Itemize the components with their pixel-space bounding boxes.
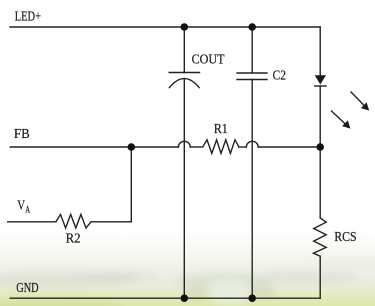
capacitor COUT curved plate bbox=[169, 79, 199, 88]
svg-text:RCS: RCS bbox=[334, 230, 356, 245]
LED D1 triangle bbox=[315, 75, 326, 84]
resistor R1 bbox=[203, 140, 239, 154]
svg-text:R2: R2 bbox=[66, 232, 81, 247]
capacitor C2 plate top bbox=[237, 72, 267, 74]
svg-text:V: V bbox=[17, 199, 25, 214]
wire FB right segment bbox=[258, 146, 320, 148]
svg-text:C2: C2 bbox=[273, 69, 286, 84]
wire R2 to riser bbox=[91, 221, 131, 223]
svg-text:LED+: LED+ bbox=[15, 9, 41, 24]
wire FB between R1 and hop2 bbox=[239, 146, 247, 148]
svg-text:R1: R1 bbox=[214, 122, 228, 137]
resistor R2 bbox=[56, 214, 91, 228]
junction FB R2 bbox=[128, 143, 136, 151]
wire COUT branch lower bbox=[183, 79, 185, 299]
wire FB node down to RCS bbox=[319, 147, 321, 218]
svg-text:FB: FB bbox=[14, 127, 30, 142]
LED D1 cathode bar bbox=[315, 85, 326, 87]
resistor RCS bbox=[313, 218, 326, 256]
LED light arrow 1 line bbox=[351, 92, 364, 105]
wire hop over C2 branch bbox=[246, 141, 258, 147]
wire FB between hop and R1 bbox=[190, 146, 203, 148]
wire FB left segment bbox=[10, 146, 178, 148]
junction GND C2 bbox=[248, 294, 256, 302]
LED arrow 1 head bbox=[361, 102, 369, 110]
wire COUT branch upper bbox=[183, 27, 185, 73]
wire C2 branch upper bbox=[251, 27, 253, 73]
wire R2 riser up to FB bbox=[130, 147, 132, 222]
LED light arrow 2 line bbox=[332, 111, 345, 123]
wire LED+ top rail bbox=[10, 26, 320, 28]
wire GND rail bbox=[10, 297, 320, 299]
svg-text:A: A bbox=[25, 205, 30, 215]
wire RCS bottom to GND corner bbox=[319, 256, 321, 298]
junction top COUT bbox=[181, 23, 189, 31]
capacitor COUT plate bbox=[169, 72, 199, 74]
wire LED cathode to FB node bbox=[319, 86, 321, 147]
junction FB LED branch bbox=[316, 143, 324, 151]
wire VA left segment bbox=[8, 221, 56, 223]
wire C2 branch lower bbox=[251, 80, 253, 299]
junction GND COUT bbox=[181, 294, 189, 302]
svg-text:COUT: COUT bbox=[192, 53, 225, 68]
wire top-right corner down to LED anode bbox=[319, 27, 321, 75]
LED arrow 2 head bbox=[342, 120, 350, 128]
capacitor C2 plate bottom bbox=[237, 79, 267, 81]
svg-text:GND: GND bbox=[16, 281, 38, 296]
wire hop over COUT branch bbox=[178, 141, 190, 147]
junction top C2 bbox=[248, 23, 256, 31]
